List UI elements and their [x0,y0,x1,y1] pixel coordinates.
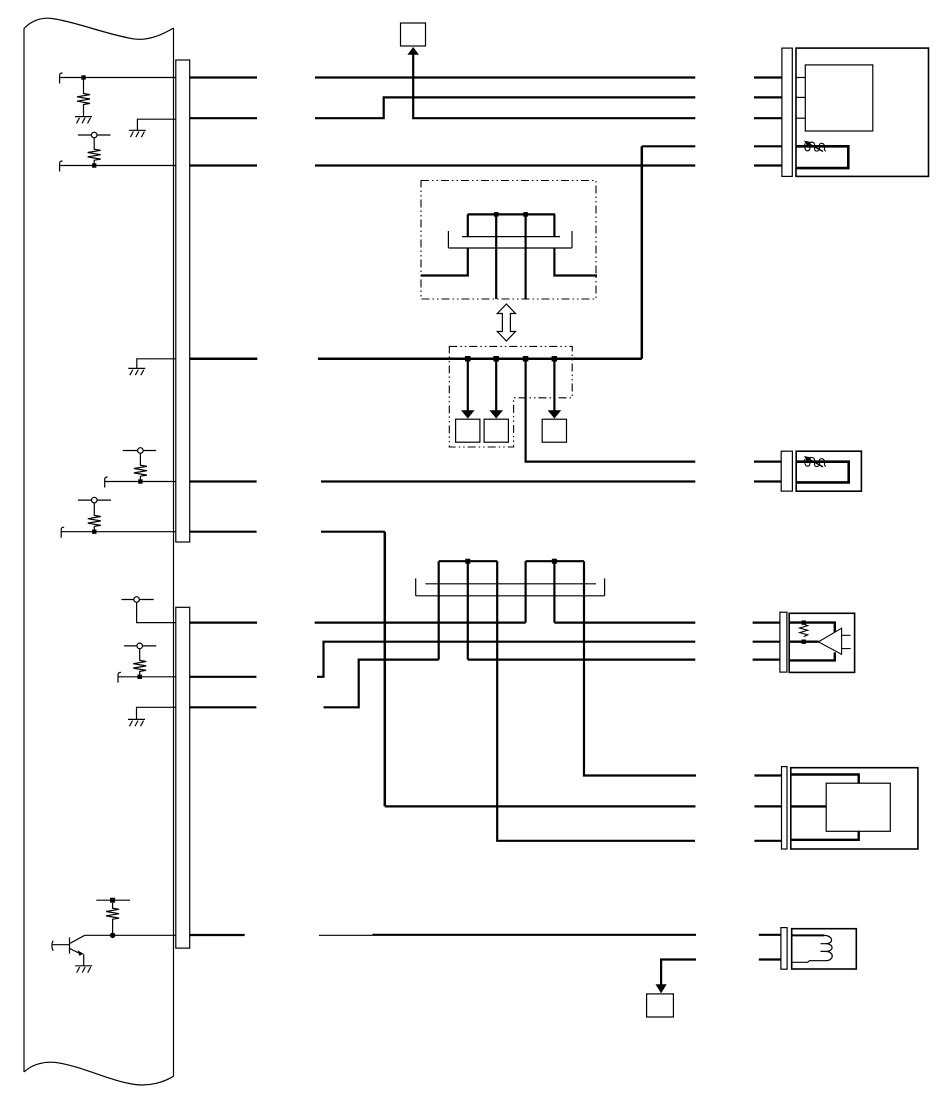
pin stub C5-1 [759,934,781,936]
junction dot splice S1 [465,559,470,564]
junction dot J (round) [110,933,116,939]
wire circle G down to connector row [137,602,176,622]
C3 internal resistor [800,624,808,637]
upper left leg below connector with exit wire [421,248,468,276]
C3 crystal stub 1 [842,634,851,636]
ECU pin terminal E [105,477,108,488]
ground G1 [75,117,92,124]
pin stub C3-3 [753,658,780,660]
wire pin E to connector [105,481,176,483]
wire W7 segment a (row y531) [190,531,257,533]
pin stub C1-2 [754,96,782,98]
pin stub C5-2 [759,958,781,960]
wire pin B to connector [60,165,176,167]
ECU connector bar 2 [176,607,190,948]
heater loop C1 [796,146,848,168]
transistor base pin bracket [52,941,53,951]
component C4 case [791,768,918,849]
wire sensor2 top feed from bus column [526,359,696,462]
inline connector 2 upper half [425,583,596,585]
inline connector left tick [447,231,449,248]
C3 junction dot mid [802,640,806,644]
bus arrow stem 3 [553,359,555,411]
C4 internal wire top [791,775,859,784]
wire W2 segment a (row2) [190,117,257,119]
connector bar C3 [780,612,787,672]
wire splice S2 right leg drop to relay pin1 [584,561,696,775]
junction dot B [92,163,96,167]
C3 internal wire mid [789,641,818,643]
splice S1 left leg [438,561,440,659]
dash-dot boundary upper (connector assembly) [421,181,596,300]
ECU pin terminal B [60,161,63,172]
resistor R-B pullup [88,138,101,166]
destination box D1 [456,419,480,442]
ECU pin terminal A [60,73,63,84]
splice bar upper [468,213,555,215]
arrowhead up to fuse box [407,47,419,55]
wire pin H to connector [118,676,176,678]
wire W1 segment b [315,76,695,78]
junction dot E [138,479,142,483]
inline connector right tick [571,231,573,248]
junction dot upper splice 2 [523,212,528,217]
pin stub C3-2 [753,641,780,643]
resistor R-E pullup [134,454,147,482]
upper right leg below connector with exit wire [554,248,597,276]
fuse box (top) [401,23,426,46]
wire splice S1 right leg drop to relay pin3 [497,561,695,841]
C3 internal wire bottom [789,652,835,660]
inline connector lower half [448,247,572,249]
destination box D2 [484,419,508,442]
terminal circle node E [123,450,157,452]
ECU pin terminal H [118,672,121,683]
wire W5 segment a (row3) [190,164,257,166]
element stub C1-1 [796,77,805,79]
wire W9 segment a (row y676) [190,676,257,678]
component C3 case [789,613,854,672]
pin stub C1-5 [754,164,782,166]
pin stub C4-3 [754,840,781,842]
upper splice right leg [553,214,555,236]
inline connector upper half [462,236,560,238]
wire pin F to connector [61,531,176,533]
C5 coil feed wire [792,934,824,936]
wire collector row to connector [85,934,176,936]
element stub C1-2 [796,96,805,98]
terminal circle node B [78,134,111,136]
splice S2 top bar [526,560,584,562]
ground G5 (emitter) [75,966,92,973]
junction dot A [81,75,85,79]
C3 internal wire top [789,623,835,633]
ground G3 [128,368,145,375]
connector bar C2 [781,451,792,491]
C3 crystal stub 2 [842,648,851,650]
C4 inner module box [826,783,890,831]
wire W5 segment b [315,164,695,166]
junction dot bus 2 [493,356,499,362]
element stub C1-3 [796,117,805,119]
junction dot splice S2 [552,559,557,564]
terminal circle node F [78,499,111,501]
wire pin A to connector [60,77,176,79]
wire from splice S1 middle to sensor3 pin3 [468,658,696,660]
C4 internal wire mid [791,805,826,807]
splice S1 middle leg [467,561,469,659]
upper splice left leg [467,214,469,236]
wire W12 solenoid low side to arrow [661,960,696,986]
component C5 case [792,929,857,969]
pin stub C2-1 [754,461,781,463]
wire W11 segment b thin [319,934,373,936]
bottom destination box [647,994,674,1017]
junction dot F [92,530,96,534]
wire W6 segment b [321,480,695,482]
wire W4 branch to sensor pin4 [642,145,696,147]
wire ground jog at bus pin row [137,359,176,369]
ground G4 [128,719,145,726]
wire W8 continuation from splice S2 to sensor3 pin1 [554,621,695,623]
connector bar C1 [782,48,792,176]
sensor element box C1 [805,65,873,131]
heater loop C2 [796,462,849,483]
pin stub C4-2 [754,805,781,807]
bus wire segment b [318,358,642,361]
ECU pin terminal F [61,527,64,538]
inline connector 2 right tick [604,578,606,595]
connector bar C4 [782,767,788,849]
pin stub C1-3 [754,117,782,119]
splice S2 middle leg [553,561,555,622]
wire W11 segment a (row y935) [190,934,245,936]
wire W7 run to relay pin2 [385,805,696,807]
component C2 case [796,451,861,491]
C3 junction dot top [802,620,806,624]
wire W11 segment c [373,934,697,936]
bus arrow stem 2 [495,359,497,411]
junction dot bus 1 [465,356,471,362]
transistor Q1 [69,937,71,953]
bidirectional hollow arrow [497,304,515,341]
heater element squiggle C2 [804,456,826,467]
pin stub C3-1 [753,621,780,623]
wire W4 vertical drop to bus [641,146,644,358]
wire W6 segment a (row y481) [190,480,257,482]
square terminal node J [96,899,130,901]
splice S2 left leg [524,561,526,622]
wire W2 segment b with riser to upper run [315,97,695,118]
upper mid leg 1 below connector [495,248,497,299]
junction dot bus 4 [552,356,558,362]
ECU block outline (torn-edge body) [24,18,174,1085]
dash-dot boundary lower (L-shaped) [449,346,572,447]
pin stub C1-1 [754,76,782,78]
arrowhead bus 1 [461,410,475,418]
upper splice mid leg 1 [495,214,497,248]
wire W1 segment a (row1 right of ECU) [190,76,257,78]
resistor R-H pullup [133,649,146,677]
terminal circle node G [122,599,154,601]
wire W8 segment b to splice S2 left leg [315,621,526,623]
resistor R-A pulldown [77,78,90,117]
C4 internal wire bottom [791,831,859,840]
wire W3 from fuse box arrow down to row2 run [413,54,695,119]
arrowhead bus 2 [489,410,503,418]
pin stub C1-4 [754,145,782,147]
arrowhead bus 3 [548,410,562,418]
wire W10 segment b jog up to splice S1 left leg [324,660,439,708]
ground G2 [129,130,146,137]
wire ground jog at connector pin row 2 [137,119,175,130]
wire W7 long vertical drop [384,532,387,807]
wire W7 segment b [321,531,385,533]
C5 solenoid coil [792,935,833,962]
destination box D3 [542,419,566,442]
connector bar C5 [781,928,787,970]
wire W8 segment a (row y622) [190,621,257,623]
resistor R-J [106,903,119,933]
upper splice mid leg 2 [524,214,526,248]
upper mid leg 2 below connector [524,248,526,299]
junction dot H [138,675,142,679]
pin stub C2-2 [754,480,781,482]
wire ground jog lower connector [137,707,176,719]
bus wire segment a [190,358,258,361]
C3 piezo triangle [818,628,841,654]
resistor R-F pullup [88,503,101,532]
splice S1 top bar [439,560,498,562]
heater element squiggle C1 [804,141,826,152]
pin stub C4-1 [754,774,781,776]
ECU connector bar 1 [176,60,190,542]
inline connector 2 lower half [416,595,605,597]
bus arrow stem 1 [467,359,469,411]
wire W9 segment b jog up to long run [317,642,695,677]
wire W10 segment a (row y707) [190,706,257,708]
arrowhead down to destination box [656,984,667,993]
terminal circle node H [124,645,156,647]
junction dot upper splice 1 [494,212,499,217]
inline connector 2 left tick [415,578,417,595]
junction dot bus 3 [523,356,529,362]
component C1 case [796,48,929,176]
